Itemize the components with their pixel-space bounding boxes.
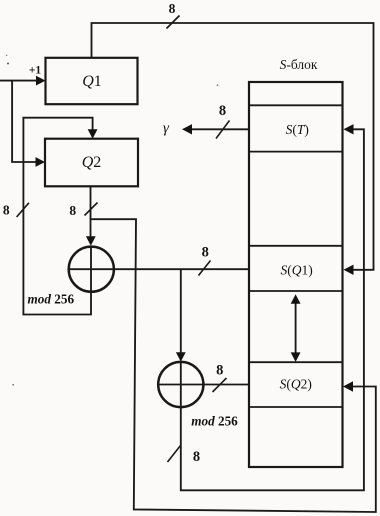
wire: branch down from XOR1 output into XOR2 top — [180, 269, 182, 353]
arrowhead into Q2 top edge — [88, 129, 98, 139]
slash: 8-bit mark on XOR1 output — [199, 261, 211, 276]
arrowhead into S(Q1) right edge — [344, 265, 354, 275]
slash: 8-bit mark on Q2 output — [85, 203, 98, 216]
slash: 8-bit mark on XOR2 down wire — [168, 446, 181, 463]
arrowhead into S(T) right edge — [344, 124, 354, 134]
svg-text:mod 256: mod 256 — [28, 292, 75, 307]
double arrow between S(Q1) and S(Q2) — [295, 302, 297, 355]
svg-text:S(Q1): S(Q1) — [280, 263, 312, 278]
S-block row line 6 (S(Q2) bottom) — [249, 406, 343, 408]
slash: 8-bit mark on XOR2 output — [213, 378, 227, 392]
arrowhead gamma (points left) — [182, 124, 192, 134]
wire: feedback loop from XOR1 bottom up into Q2 top — [23, 118, 92, 315]
S-block row line 1 — [249, 104, 343, 106]
wire: gamma output from S(T) left edge — [192, 128, 250, 130]
XOR1 cross vertical — [90, 246, 92, 292]
svg-text:8: 8 — [216, 363, 223, 379]
svg-text:mod 256: mod 256 — [191, 414, 238, 429]
wire: XOR2 output right to S(Q2) left edge — [204, 384, 249, 386]
slash: 8-bit mark on gamma output — [216, 121, 230, 139]
svg-text:S(T): S(T) — [286, 122, 309, 137]
S-block outer box — [249, 82, 343, 467]
wire: Q2 branch right and down, around bottom, up into S(Q2) right edge — [91, 219, 376, 512]
svg-text:8: 8 — [69, 203, 76, 218]
svg-text:8: 8 — [3, 203, 10, 218]
speckle dot 3 — [6, 55, 8, 57]
box Q2 — [45, 139, 138, 187]
svg-text:S(Q2): S(Q2) — [280, 376, 312, 391]
svg-text:S-блок: S-блок — [280, 57, 318, 72]
XOR adder circle 1 (mod 256) — [69, 247, 114, 292]
wire: XOR1 output right to S(Q1) left edge — [69, 268, 249, 270]
svg-text:8: 8 — [169, 1, 176, 16]
speckle dot 2 — [12, 384, 14, 386]
slash: 8-bit mark on top bus — [167, 16, 180, 29]
wire: branch from +1 line down into Q2 left edge — [12, 81, 37, 162]
S-block row line 3 (S(Q1) top) — [249, 245, 343, 247]
svg-text:8: 8 — [202, 245, 209, 261]
svg-text:8: 8 — [219, 103, 226, 119]
arrowhead into S(Q2) right edge — [343, 381, 353, 391]
arrowhead into XOR1 top — [86, 236, 96, 246]
arrowhead into Q2 left edge — [36, 157, 46, 167]
S-block row line 2 (S(T) bottom) — [249, 151, 343, 153]
svg-text:+1: +1 — [29, 65, 42, 77]
speckle dot — [7, 63, 9, 65]
svg-text:Q2: Q2 — [82, 154, 102, 171]
arrowhead into Q1 left edge — [36, 76, 46, 86]
XOR2 cross horizontal — [158, 384, 203, 386]
arrowhead into XOR2 top — [176, 352, 186, 362]
speckle dot 4 — [217, 84, 219, 86]
svg-text:Q1: Q1 — [82, 73, 102, 90]
wire: +1 input into Q1 — [0, 80, 38, 82]
svg-text:γ: γ — [163, 121, 170, 137]
box Q1 — [46, 58, 138, 104]
wire: top bus Q1 to S(Q1) right side — [92, 23, 374, 270]
wire: XOR2 bottom down, around, up into S(T) right edge — [181, 129, 364, 490]
svg-text:8: 8 — [193, 449, 200, 465]
S-block row line 5 (S(Q2) top) — [249, 361, 343, 363]
S-block row line 4 (S(Q1) bottom) — [249, 290, 343, 292]
XOR adder circle 2 (mod 256) — [158, 362, 203, 407]
slash: 8-bit mark on feedback loop — [17, 203, 29, 217]
wire: Q2 output down to XOR1 top — [90, 186, 92, 237]
